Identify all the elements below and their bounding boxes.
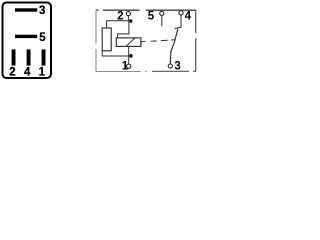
wire: junction A down, jog left, into coil top — [118, 21, 129, 38]
relay body dashed outline: bottom edge left part — [96, 71, 152, 73]
terminal 5 — [160, 11, 164, 15]
relay body dashed outline: top edge — [96, 9, 196, 11]
pin 2 blade — [12, 49, 16, 65]
junction A — [129, 19, 133, 23]
terminal 3 — [168, 64, 172, 68]
relay body dashed outline: bottom edge right part — [152, 70, 196, 72]
svg-text:2: 2 — [9, 66, 15, 78]
wire: terminal 4 down (NO contact lead) — [180, 16, 182, 27]
terminal 2 — [126, 12, 130, 16]
pin 1 blade — [42, 49, 46, 65]
relay body dashed outline: right edge — [195, 10, 197, 72]
svg-text:5: 5 — [39, 32, 46, 44]
wire: junction B down to terminal 1 — [128, 56, 130, 64]
wire: terminal 2 down to junction A — [127, 16, 129, 21]
pin 4 blade — [27, 49, 31, 65]
terminal 1 — [127, 64, 131, 68]
svg-text:2: 2 — [117, 10, 123, 22]
wire: terminal 5 down (NC contact lead) — [161, 16, 163, 26]
relay body dashed outline: left edge — [95, 10, 97, 72]
coil — [116, 38, 141, 47]
svg-text:1: 1 — [122, 60, 129, 72]
terminal 4 — [179, 11, 183, 15]
svg-text:4: 4 — [185, 10, 192, 22]
wire: coil bottom down to junction B — [128, 46, 130, 56]
pin 3 blade — [15, 8, 37, 11]
coil diagonal — [126, 38, 135, 47]
svg-text:4: 4 — [24, 66, 31, 78]
svg-text:5: 5 — [148, 10, 155, 22]
relay socket outline — [3, 3, 52, 79]
pin 5 blade — [15, 35, 37, 38]
resistor — [102, 28, 111, 51]
switch armature from terminal 3 — [170, 29, 178, 64]
wire: resistor bottom-left down then right to junction B — [102, 51, 129, 56]
junction B — [129, 54, 133, 58]
svg-text:1: 1 — [39, 66, 46, 78]
contact seat of terminal 4 — [175, 27, 182, 29]
svg-text:3: 3 — [174, 60, 180, 72]
wire: junction A left to resistor top corner — [107, 21, 129, 28]
svg-text:3: 3 — [39, 5, 45, 17]
mechanical link (dashed) coil to armature — [141, 40, 175, 42]
